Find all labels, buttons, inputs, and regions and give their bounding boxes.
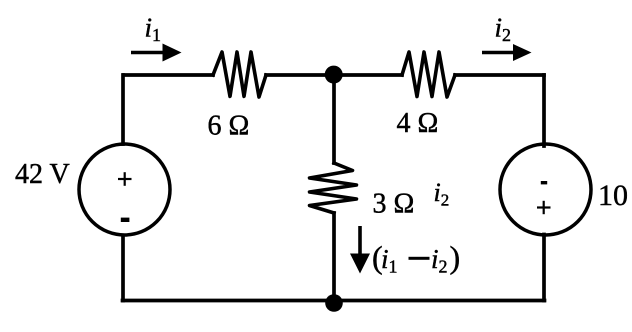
svg-text:i2: i2 — [495, 13, 512, 46]
svg-text:i2: i2 — [431, 244, 448, 277]
svg-text:42 V: 42 V — [15, 159, 70, 190]
svg-text:i1: i1 — [145, 13, 162, 46]
svg-text:): ) — [450, 239, 461, 275]
svg-text:4 Ω: 4 Ω — [397, 108, 439, 139]
svg-text:10: 10 — [598, 179, 628, 212]
svg-text:6 Ω: 6 Ω — [208, 111, 250, 142]
svg-text:i1: i1 — [381, 244, 398, 277]
svg-text:i2: i2 — [434, 178, 450, 210]
svg-text:3 Ω: 3 Ω — [373, 189, 415, 220]
